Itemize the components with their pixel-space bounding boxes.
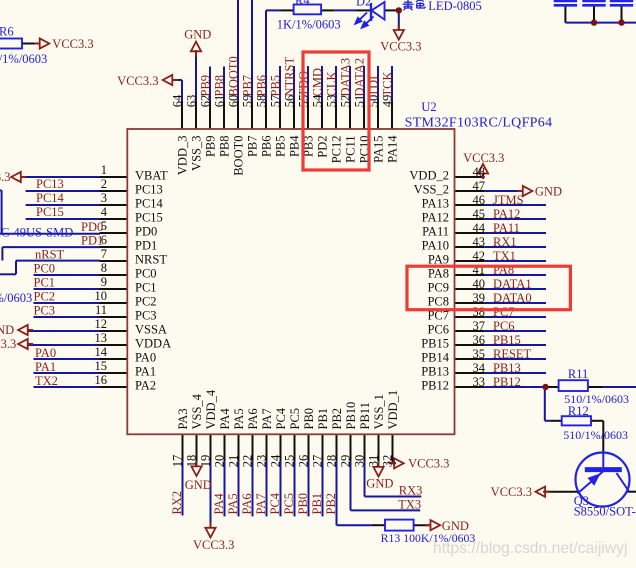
svg-text:PB1: PB1 — [310, 493, 324, 515]
svg-text:53: 53 — [325, 95, 339, 108]
svg-text:PC3: PC3 — [34, 304, 56, 318]
svg-text:VCC3.3: VCC3.3 — [0, 337, 16, 351]
svg-text:PA15: PA15 — [371, 136, 385, 163]
svg-text:100K/1%/0603: 100K/1%/0603 — [0, 52, 47, 66]
svg-text:16: 16 — [95, 373, 108, 387]
svg-text:PA5: PA5 — [232, 408, 246, 429]
svg-text:PB1: PB1 — [316, 408, 330, 430]
svg-text:PB6: PB6 — [259, 136, 273, 158]
svg-text:1: 1 — [101, 163, 107, 177]
svg-text:VSSA: VSSA — [135, 323, 167, 337]
svg-text:14: 14 — [95, 345, 108, 359]
svg-text:PC12: PC12 — [329, 136, 343, 164]
svg-text:13: 13 — [95, 331, 108, 345]
svg-text:52: 52 — [339, 95, 353, 108]
svg-text:DATA2: DATA2 — [353, 58, 367, 97]
svg-text:BOOT0: BOOT0 — [231, 136, 245, 176]
svg-text:VDD_4: VDD_4 — [204, 389, 218, 429]
svg-text:PA10: PA10 — [422, 239, 449, 253]
svg-text:35: 35 — [473, 347, 486, 361]
svg-text:VCC3.3: VCC3.3 — [193, 538, 234, 552]
svg-text:TX1: TX1 — [493, 249, 516, 263]
svg-text:56: 56 — [283, 95, 297, 108]
svg-text:17: 17 — [171, 455, 185, 468]
svg-text:30: 30 — [353, 455, 367, 468]
svg-text:34: 34 — [473, 361, 486, 375]
svg-text:PC15: PC15 — [135, 211, 163, 225]
svg-text:PB7: PB7 — [245, 136, 259, 158]
svg-text:62: 62 — [199, 95, 213, 108]
svg-text:60: 60 — [227, 95, 241, 108]
svg-text:PB5: PB5 — [269, 75, 283, 97]
svg-text:26: 26 — [297, 455, 311, 468]
svg-text:PC13: PC13 — [36, 177, 64, 191]
svg-text:STM32F103RC/LQFP64: STM32F103RC/LQFP64 — [405, 115, 553, 130]
svg-text:32: 32 — [381, 455, 395, 468]
svg-text:PC1: PC1 — [135, 281, 157, 295]
svg-text:7: 7 — [101, 247, 107, 261]
svg-text:51: 51 — [353, 95, 367, 108]
svg-text:PA14: PA14 — [385, 135, 399, 163]
svg-text:28: 28 — [325, 455, 339, 468]
svg-text:PB9: PB9 — [199, 75, 213, 97]
svg-text:23: 23 — [255, 455, 269, 468]
svg-text:49: 49 — [381, 95, 395, 108]
svg-text:12: 12 — [95, 317, 108, 331]
svg-text:63: 63 — [185, 95, 199, 108]
svg-text:TX2: TX2 — [35, 374, 58, 388]
svg-text:19: 19 — [199, 455, 213, 468]
svg-text:PA9: PA9 — [428, 253, 449, 267]
svg-text:PC15: PC15 — [36, 205, 64, 219]
svg-text:S8550/SOT-23: S8550/SOT-23 — [574, 505, 636, 519]
svg-text:PC11: PC11 — [343, 136, 357, 163]
svg-text:PD0: PD0 — [135, 225, 157, 239]
svg-text:PA6: PA6 — [246, 408, 260, 429]
svg-text:VCC3.3: VCC3.3 — [491, 485, 532, 499]
svg-text:GND: GND — [535, 185, 562, 199]
svg-text:38: 38 — [473, 305, 486, 319]
svg-text:PA12: PA12 — [422, 211, 449, 225]
svg-text:58: 58 — [255, 95, 269, 108]
svg-text:PA12: PA12 — [493, 207, 520, 221]
svg-text:PC4: PC4 — [268, 492, 282, 514]
svg-text:R6: R6 — [0, 25, 14, 39]
svg-text:PB0: PB0 — [296, 493, 310, 515]
svg-text:PB14: PB14 — [421, 351, 450, 365]
svg-text:PB15: PB15 — [493, 333, 521, 347]
svg-text:61: 61 — [213, 95, 227, 108]
svg-text:PA7: PA7 — [260, 408, 274, 429]
svg-text:24: 24 — [269, 454, 283, 467]
svg-text:PB5: PB5 — [273, 136, 287, 158]
svg-text:10: 10 — [95, 289, 108, 303]
svg-text:PB13: PB13 — [493, 361, 521, 375]
svg-text:PD2: PD2 — [315, 136, 329, 158]
svg-text:GND: GND — [366, 477, 393, 491]
svg-text:PC9: PC9 — [427, 281, 449, 295]
svg-text:R11: R11 — [568, 367, 588, 381]
svg-text:27: 27 — [311, 455, 325, 468]
svg-text:DATA0: DATA0 — [493, 291, 532, 305]
svg-text:PB6: PB6 — [255, 75, 269, 97]
svg-text:PC2: PC2 — [34, 290, 56, 304]
svg-text:6: 6 — [101, 233, 107, 247]
svg-text:25: 25 — [283, 455, 297, 468]
svg-text:42: 42 — [473, 249, 486, 263]
svg-text:PA0: PA0 — [35, 346, 56, 360]
svg-text:48: 48 — [473, 165, 486, 179]
svg-text:VDDA: VDDA — [135, 337, 171, 351]
svg-text:CLK: CLK — [325, 72, 339, 97]
svg-text:510/1%/0603: 510/1%/0603 — [563, 428, 628, 442]
svg-text:VBAT: VBAT — [135, 169, 168, 183]
svg-text:PC7: PC7 — [493, 305, 515, 319]
svg-text:PC4: PC4 — [274, 407, 288, 429]
svg-text:VDD_2: VDD_2 — [409, 169, 449, 183]
svg-text:21: 21 — [227, 455, 241, 468]
svg-text:PC14: PC14 — [135, 197, 164, 211]
svg-text:VDD_1: VDD_1 — [386, 390, 400, 430]
svg-text:29: 29 — [339, 455, 353, 468]
svg-text:PB2: PB2 — [324, 493, 338, 515]
svg-text:31: 31 — [367, 455, 381, 468]
svg-text:PA1: PA1 — [35, 360, 56, 374]
svg-text:PB7: PB7 — [241, 75, 255, 97]
svg-text:PB0: PB0 — [302, 408, 316, 430]
svg-text:59: 59 — [241, 95, 255, 108]
svg-text:PA3: PA3 — [176, 408, 190, 429]
svg-text:PA13: PA13 — [422, 197, 449, 211]
svg-text:PB4: PB4 — [287, 135, 301, 157]
svg-text:PC8: PC8 — [427, 295, 449, 309]
svg-text:VCC3.3: VCC3.3 — [380, 40, 421, 54]
svg-text:15: 15 — [95, 359, 108, 373]
svg-text:U2: U2 — [421, 100, 436, 114]
svg-text:nRST: nRST — [35, 247, 65, 261]
svg-text:LED-0805: LED-0805 — [428, 0, 481, 13]
svg-text:DATA1: DATA1 — [493, 277, 532, 291]
svg-text:PA2: PA2 — [135, 379, 156, 393]
svg-text:VCC3.3: VCC3.3 — [0, 170, 11, 184]
svg-text:PD1: PD1 — [135, 239, 157, 253]
svg-text:HC-49US-SMD: HC-49US-SMD — [0, 226, 73, 240]
svg-text:TCK: TCK — [381, 72, 395, 97]
svg-text:TX3: TX3 — [398, 497, 421, 511]
svg-text:VCC3.3: VCC3.3 — [408, 457, 449, 471]
svg-text:RX2: RX2 — [170, 491, 184, 515]
svg-text:PC0: PC0 — [135, 267, 157, 281]
svg-text:PB8: PB8 — [213, 75, 227, 97]
svg-text:PA4: PA4 — [212, 493, 226, 515]
svg-text:PC6: PC6 — [493, 319, 515, 333]
svg-text:57: 57 — [269, 95, 283, 108]
svg-text:37: 37 — [473, 319, 486, 333]
svg-text:PC3: PC3 — [135, 309, 157, 323]
svg-text:GND: GND — [184, 27, 211, 41]
svg-text:45: 45 — [473, 207, 486, 221]
svg-text:PB10: PB10 — [344, 402, 358, 430]
svg-text:VSS_2: VSS_2 — [414, 183, 449, 197]
svg-text:3: 3 — [101, 191, 107, 205]
svg-text:20: 20 — [213, 455, 227, 468]
svg-text:4: 4 — [101, 205, 108, 219]
svg-text:PC5: PC5 — [282, 493, 296, 515]
svg-text:VCC3.3: VCC3.3 — [52, 37, 93, 51]
svg-text:36: 36 — [473, 333, 486, 347]
svg-text:PC5: PC5 — [288, 408, 302, 430]
svg-text:PB15: PB15 — [421, 337, 449, 351]
svg-text:DATA3: DATA3 — [339, 58, 353, 97]
svg-text:GND: GND — [185, 478, 212, 492]
svg-text:VSS_1: VSS_1 — [372, 394, 386, 429]
svg-text:PB9: PB9 — [203, 136, 217, 158]
svg-text:VDD_3: VDD_3 — [175, 136, 189, 176]
svg-text:11: 11 — [95, 303, 107, 317]
svg-text:PA4: PA4 — [218, 408, 232, 430]
svg-text:9: 9 — [101, 275, 107, 289]
svg-text:PB11: PB11 — [358, 402, 372, 429]
svg-text:PA5: PA5 — [226, 493, 240, 514]
svg-text:PC13: PC13 — [135, 183, 163, 197]
svg-text:VCC3.3: VCC3.3 — [463, 151, 504, 165]
svg-text:CMD: CMD — [311, 68, 325, 96]
svg-text:2: 2 — [101, 177, 107, 191]
svg-text:RX3: RX3 — [399, 483, 423, 497]
svg-text:BOOT0: BOOT0 — [227, 56, 241, 96]
svg-text:D2: D2 — [356, 0, 371, 8]
svg-text:VCC3.3: VCC3.3 — [117, 74, 158, 88]
svg-text:43: 43 — [473, 235, 486, 249]
svg-text:RESET: RESET — [493, 347, 532, 361]
svg-text:PA8: PA8 — [428, 267, 449, 281]
svg-text:46: 46 — [473, 193, 486, 207]
svg-text:NRST: NRST — [135, 253, 167, 267]
svg-text:PA6: PA6 — [240, 493, 254, 514]
svg-text:PC2: PC2 — [135, 295, 157, 309]
svg-text:GND: GND — [0, 323, 14, 337]
svg-text:8: 8 — [101, 261, 107, 275]
svg-text:40: 40 — [473, 277, 486, 291]
svg-text:JTMS: JTMS — [493, 193, 524, 207]
svg-text:R4: R4 — [295, 0, 310, 7]
svg-text:PB12: PB12 — [421, 379, 449, 393]
svg-text:1K/1%/0603: 1K/1%/0603 — [277, 18, 341, 32]
svg-text:PA1: PA1 — [135, 365, 156, 379]
svg-text:R12: R12 — [568, 404, 589, 418]
svg-text:PB12: PB12 — [493, 375, 521, 389]
svg-text:RX1: RX1 — [493, 235, 517, 249]
svg-text:PA11: PA11 — [493, 221, 520, 235]
svg-text:PA0: PA0 — [135, 351, 156, 365]
svg-text:64: 64 — [171, 94, 185, 107]
svg-text:VSS_4: VSS_4 — [190, 393, 204, 429]
svg-text:PC1: PC1 — [34, 276, 56, 290]
svg-text:https://blog.csdn.net/caijiwyj: https://blog.csdn.net/caijiwyj — [433, 540, 627, 557]
svg-text:PB2: PB2 — [330, 408, 344, 430]
svg-text:PC14: PC14 — [36, 191, 65, 205]
svg-text:PB8: PB8 — [217, 136, 231, 158]
svg-text:PA11: PA11 — [422, 225, 449, 239]
svg-text:PB13: PB13 — [421, 365, 449, 379]
svg-text:PC6: PC6 — [427, 323, 449, 337]
svg-text:22: 22 — [241, 455, 255, 468]
svg-text:47: 47 — [473, 179, 486, 193]
svg-text:VSS_3: VSS_3 — [189, 136, 203, 171]
svg-text:39: 39 — [473, 291, 486, 305]
svg-text:33: 33 — [473, 375, 486, 389]
svg-text:54: 54 — [311, 94, 325, 107]
svg-text:18: 18 — [185, 455, 199, 468]
svg-text:NTRST: NTRST — [283, 57, 297, 97]
svg-text:10K/1%/0603: 10K/1%/0603 — [0, 291, 32, 305]
svg-text:44: 44 — [473, 221, 486, 235]
svg-text:5: 5 — [101, 219, 107, 233]
svg-text:PC0: PC0 — [34, 262, 56, 276]
svg-text:PA7: PA7 — [254, 493, 268, 514]
